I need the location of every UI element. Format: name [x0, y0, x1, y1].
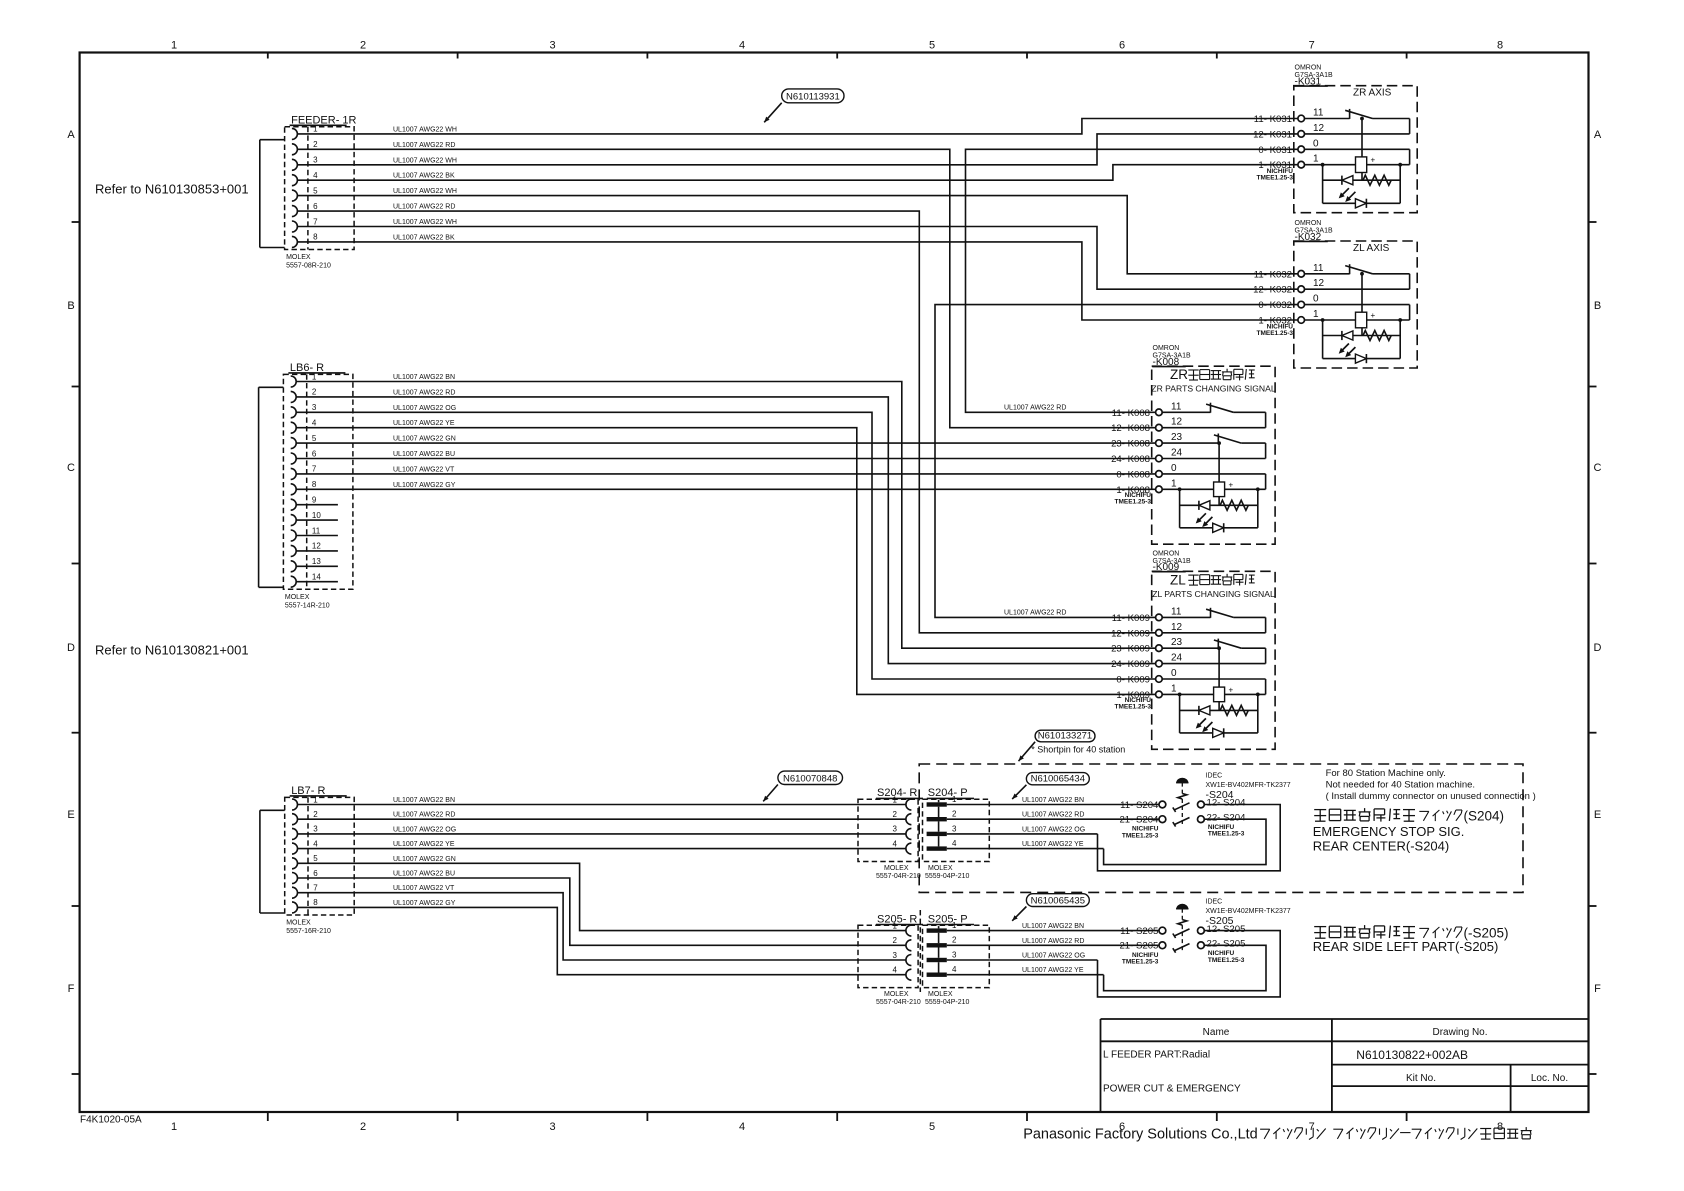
- svg-text:Panasonic Factory Solutions Co: Panasonic Factory Solutions Co.,Ltd: [1023, 1126, 1258, 1142]
- svg-text:UL1007 AWG22 OG: UL1007 AWG22 OG: [393, 826, 456, 833]
- svg-text:11- K032: 11- K032: [1254, 269, 1292, 280]
- svg-text:UL1007 AWG22 GY: UL1007 AWG22 GY: [393, 900, 456, 907]
- svg-text:23- K008: 23- K008: [1111, 439, 1150, 450]
- svg-text:21- S205: 21- S205: [1119, 941, 1158, 952]
- svg-text:0: 0: [1313, 294, 1319, 305]
- svg-text:3: 3: [952, 950, 957, 959]
- svg-text:3: 3: [893, 951, 898, 960]
- svg-text:N610070848: N610070848: [783, 773, 837, 784]
- svg-text:ZL AXIS: ZL AXIS: [1353, 243, 1390, 254]
- svg-text:7: 7: [1309, 40, 1315, 52]
- svg-text:+: +: [1229, 480, 1234, 489]
- svg-text:ZR AXIS: ZR AXIS: [1353, 88, 1392, 99]
- svg-text:6: 6: [313, 869, 318, 878]
- svg-text:UL1007 AWG22 RD: UL1007 AWG22 RD: [1004, 405, 1066, 412]
- svg-text:TMEE1.25-3: TMEE1.25-3: [1208, 831, 1245, 838]
- svg-text:7: 7: [313, 217, 318, 226]
- svg-text:8: 8: [313, 233, 318, 242]
- svg-text:UL1007 AWG22 BN: UL1007 AWG22 BN: [393, 374, 455, 381]
- svg-text:ZL PARTS CHANGING SIGNAL: ZL PARTS CHANGING SIGNAL: [1152, 589, 1275, 599]
- svg-text:21- S204: 21- S204: [1119, 815, 1159, 826]
- svg-text:8: 8: [1497, 1121, 1503, 1133]
- svg-text:13: 13: [312, 557, 321, 566]
- svg-text:4: 4: [313, 839, 318, 848]
- svg-text:3: 3: [952, 824, 957, 833]
- svg-text:2: 2: [893, 936, 898, 945]
- svg-text:2: 2: [360, 40, 366, 52]
- svg-text:12: 12: [1171, 417, 1183, 428]
- svg-text:ZR PARTS CHANGING SIGNAL: ZR PARTS CHANGING SIGNAL: [1151, 384, 1276, 394]
- svg-text:S205- P: S205- P: [928, 913, 968, 925]
- svg-text:UL1007 AWG22 BK: UL1007 AWG22 BK: [393, 234, 455, 241]
- svg-text:OMRON: OMRON: [1153, 345, 1180, 352]
- svg-text:7: 7: [313, 884, 318, 893]
- svg-text:Refer to N610130821+001: Refer to N610130821+001: [95, 643, 249, 658]
- svg-text:UL1007 AWG22 YE: UL1007 AWG22 YE: [393, 420, 455, 427]
- svg-text:2: 2: [313, 140, 318, 149]
- svg-text:OMRON: OMRON: [1153, 550, 1180, 557]
- svg-text:REAR SIDE LEFT PART(-S205): REAR SIDE LEFT PART(-S205): [1313, 939, 1499, 954]
- svg-text:5: 5: [313, 186, 318, 195]
- svg-text:5559-04P-210: 5559-04P-210: [925, 999, 969, 1006]
- svg-text:5557-04R-210: 5557-04R-210: [876, 999, 921, 1006]
- svg-text:UL1007 AWG22 OG: UL1007 AWG22 OG: [1022, 953, 1085, 960]
- svg-text:A: A: [67, 129, 75, 141]
- svg-text:22- S204: 22- S204: [1207, 812, 1247, 823]
- svg-text:4: 4: [952, 965, 957, 974]
- svg-text:24: 24: [1171, 653, 1183, 664]
- svg-text:5: 5: [929, 40, 935, 52]
- svg-text:MOLEX: MOLEX: [286, 254, 311, 261]
- svg-text:Drawing No.: Drawing No.: [1432, 1027, 1487, 1038]
- svg-text:0- K032: 0- K032: [1258, 300, 1292, 311]
- svg-text:1: 1: [313, 795, 318, 804]
- svg-text:XW1E-BV402MFR-TK2377: XW1E-BV402MFR-TK2377: [1206, 908, 1291, 915]
- svg-text:UL1007 AWG22 RD: UL1007 AWG22 RD: [1004, 610, 1066, 617]
- svg-text:F4K1020-05A: F4K1020-05A: [80, 1115, 142, 1126]
- svg-text:6: 6: [312, 449, 317, 458]
- svg-text:N610065434: N610065434: [1031, 774, 1085, 785]
- svg-text:UL1007 AWG22 VT: UL1007 AWG22 VT: [393, 466, 455, 473]
- svg-text:8: 8: [1497, 40, 1503, 52]
- svg-text:UL1007 AWG22 RD: UL1007 AWG22 RD: [1022, 812, 1084, 819]
- svg-text:11: 11: [1171, 606, 1182, 617]
- svg-text:0- K031: 0- K031: [1258, 145, 1292, 156]
- svg-text:TMEE1.25-3: TMEE1.25-3: [1208, 957, 1245, 964]
- svg-text:TMEE1.25-3: TMEE1.25-3: [1122, 832, 1159, 839]
- svg-text:B: B: [1594, 300, 1601, 312]
- svg-text:UL1007 AWG22 WH: UL1007 AWG22 WH: [393, 157, 457, 164]
- svg-text:UL1007 AWG22 OG: UL1007 AWG22 OG: [393, 405, 456, 412]
- svg-text:3: 3: [549, 1121, 555, 1133]
- svg-text:UL1007 AWG22 BU: UL1007 AWG22 BU: [393, 451, 455, 458]
- svg-text:TMEE1.25-3: TMEE1.25-3: [1122, 959, 1159, 966]
- svg-text:0- K009: 0- K009: [1116, 675, 1150, 686]
- svg-text:24- K008: 24- K008: [1111, 454, 1150, 465]
- svg-text:12: 12: [312, 542, 321, 551]
- svg-text:2: 2: [893, 810, 898, 819]
- svg-text:11- K008: 11- K008: [1112, 408, 1150, 419]
- svg-text:11: 11: [312, 526, 321, 535]
- svg-text:ZL: ZL: [1170, 572, 1186, 587]
- svg-text:12: 12: [1313, 123, 1325, 134]
- svg-text:Refer to N610130853+001: Refer to N610130853+001: [95, 182, 249, 197]
- svg-text:2: 2: [952, 810, 957, 819]
- svg-text:UL1007 AWG22 BK: UL1007 AWG22 BK: [393, 173, 455, 180]
- svg-text:UL1007 AWG22 WH: UL1007 AWG22 WH: [393, 188, 457, 195]
- svg-text:12: 12: [1171, 622, 1183, 633]
- svg-text:+: +: [1371, 311, 1376, 320]
- svg-text:1: 1: [952, 795, 957, 804]
- svg-text:XW1E-BV402MFR-TK2377: XW1E-BV402MFR-TK2377: [1206, 782, 1291, 789]
- svg-text:S204- P: S204- P: [928, 787, 968, 799]
- svg-text:0: 0: [1313, 138, 1319, 149]
- svg-text:TMEE1.25-3: TMEE1.25-3: [1115, 499, 1152, 506]
- svg-text:N610065435: N610065435: [1031, 895, 1085, 906]
- svg-text:4: 4: [893, 839, 898, 848]
- svg-text:24: 24: [1171, 448, 1183, 459]
- svg-text:5557-08R-210: 5557-08R-210: [286, 263, 331, 270]
- svg-text:MOLEX: MOLEX: [884, 991, 909, 998]
- svg-text:11: 11: [1313, 108, 1324, 119]
- svg-text:1: 1: [1171, 478, 1177, 489]
- svg-text:(S204): (S204): [1464, 808, 1505, 823]
- svg-text:3: 3: [313, 156, 318, 165]
- svg-text:12- K032: 12- K032: [1253, 285, 1292, 296]
- svg-text:3: 3: [549, 40, 555, 52]
- svg-text:Not needed for 40 Station mach: Not needed for 40 Station machine.: [1326, 780, 1475, 791]
- svg-text:6: 6: [313, 202, 318, 211]
- svg-text:E: E: [1594, 809, 1601, 821]
- svg-text:MOLEX: MOLEX: [286, 920, 311, 927]
- svg-text:5557-14R-210: 5557-14R-210: [285, 602, 330, 609]
- svg-text:12- K009: 12- K009: [1111, 628, 1150, 639]
- svg-text:23- K009: 23- K009: [1111, 644, 1150, 655]
- svg-text:11: 11: [1171, 401, 1182, 412]
- svg-text:1: 1: [952, 921, 957, 930]
- svg-text:11- K031: 11- K031: [1254, 114, 1292, 125]
- svg-text:22- S205: 22- S205: [1207, 939, 1246, 950]
- svg-text:UL1007 AWG22 RD: UL1007 AWG22 RD: [393, 204, 455, 211]
- svg-text:E: E: [67, 809, 74, 821]
- svg-text:-S205: -S205: [1206, 915, 1234, 927]
- svg-text:S205- R: S205- R: [877, 913, 917, 925]
- svg-text:For 80 Station Machine only.: For 80 Station Machine only.: [1326, 768, 1446, 779]
- svg-text:0- K008: 0- K008: [1116, 469, 1150, 480]
- svg-text:F: F: [68, 983, 75, 995]
- svg-text:* Shortpin for 40 station: * Shortpin for 40 station: [1031, 745, 1125, 755]
- svg-text:OMRON: OMRON: [1295, 65, 1322, 72]
- svg-text:12: 12: [1313, 278, 1325, 289]
- svg-text:UL1007 AWG22 WH: UL1007 AWG22 WH: [393, 219, 457, 226]
- svg-text:12- K008: 12- K008: [1111, 423, 1150, 434]
- svg-text:5: 5: [929, 1121, 935, 1133]
- svg-text:0: 0: [1171, 668, 1177, 679]
- svg-text:TMEE1.25-3: TMEE1.25-3: [1257, 175, 1294, 182]
- svg-text:TMEE1.25-3: TMEE1.25-3: [1257, 330, 1294, 337]
- svg-text:S204- R: S204- R: [877, 787, 917, 799]
- svg-text:UL1007 AWG22 RD: UL1007 AWG22 RD: [393, 812, 455, 819]
- svg-text:UL1007 AWG22 YE: UL1007 AWG22 YE: [1022, 967, 1084, 974]
- svg-text:B: B: [67, 300, 74, 312]
- svg-text:UL1007 AWG22 RD: UL1007 AWG22 RD: [1022, 938, 1084, 945]
- svg-text:MOLEX: MOLEX: [285, 594, 310, 601]
- svg-text:6: 6: [1119, 40, 1125, 52]
- svg-text:N610113931: N610113931: [786, 92, 840, 103]
- svg-text:23: 23: [1171, 637, 1183, 648]
- svg-text:1: 1: [313, 125, 318, 134]
- svg-text:3: 3: [312, 403, 317, 412]
- svg-text:9: 9: [312, 496, 317, 505]
- svg-text:UL1007 AWG22 OG: UL1007 AWG22 OG: [1022, 826, 1085, 833]
- svg-text:UL1007 AWG22 BN: UL1007 AWG22 BN: [1022, 797, 1084, 804]
- svg-text:3: 3: [313, 825, 318, 834]
- svg-text:D: D: [67, 642, 75, 654]
- svg-text:23: 23: [1171, 432, 1183, 443]
- svg-text:11: 11: [1313, 263, 1324, 274]
- svg-text:1: 1: [171, 40, 177, 52]
- svg-text:N610133271: N610133271: [1038, 731, 1092, 742]
- svg-text:TMEE1.25-3: TMEE1.25-3: [1115, 704, 1152, 711]
- svg-text:5557-16R-210: 5557-16R-210: [286, 928, 331, 935]
- svg-text:5557-04R-210: 5557-04R-210: [876, 873, 921, 880]
- svg-text:24- K009: 24- K009: [1111, 659, 1150, 670]
- svg-text:12- K031: 12- K031: [1253, 129, 1292, 140]
- svg-text:4: 4: [952, 839, 957, 848]
- svg-text:5559-04P-210: 5559-04P-210: [925, 873, 969, 880]
- svg-text:UL1007 AWG22 YE: UL1007 AWG22 YE: [393, 841, 455, 848]
- svg-text:Name: Name: [1203, 1027, 1230, 1038]
- svg-text:POWER CUT & EMERGENCY: POWER CUT & EMERGENCY: [1103, 1084, 1241, 1095]
- svg-text:1: 1: [312, 372, 317, 381]
- svg-text:UL1007 AWG22 GY: UL1007 AWG22 GY: [393, 482, 456, 489]
- svg-text:REAR CENTER(-S204): REAR CENTER(-S204): [1313, 839, 1450, 854]
- svg-text:4: 4: [312, 419, 317, 428]
- svg-text:IDEC: IDEC: [1206, 898, 1223, 905]
- svg-text:MOLEX: MOLEX: [928, 865, 953, 872]
- svg-text:2: 2: [313, 810, 318, 819]
- svg-text:7: 7: [312, 465, 317, 474]
- svg-text:-S204: -S204: [1206, 789, 1234, 801]
- svg-text:UL1007 AWG22 RD: UL1007 AWG22 RD: [393, 142, 455, 149]
- svg-text:2: 2: [312, 388, 317, 397]
- svg-text:IDEC: IDEC: [1206, 772, 1223, 779]
- svg-text:1: 1: [1313, 309, 1319, 320]
- svg-text:D: D: [1594, 642, 1602, 654]
- svg-text:8: 8: [313, 898, 318, 907]
- svg-text:UL1007 AWG22 BU: UL1007 AWG22 BU: [393, 871, 455, 878]
- svg-text:+: +: [1371, 156, 1376, 165]
- svg-text:Kit No.: Kit No.: [1406, 1073, 1436, 1084]
- svg-text:(-S205): (-S205): [1464, 925, 1509, 940]
- svg-text:14: 14: [312, 573, 321, 582]
- svg-text:10: 10: [312, 511, 321, 520]
- svg-text:2: 2: [952, 936, 957, 945]
- svg-text:4: 4: [893, 966, 898, 975]
- svg-text:1: 1: [893, 795, 898, 804]
- svg-text:UL1007 AWG22 WH: UL1007 AWG22 WH: [393, 126, 457, 133]
- svg-text:1: 1: [893, 921, 898, 930]
- svg-text:1: 1: [1313, 154, 1319, 165]
- svg-text:8: 8: [312, 480, 317, 489]
- svg-text:2: 2: [360, 1121, 366, 1133]
- svg-text:1: 1: [171, 1121, 177, 1133]
- svg-text:7: 7: [1309, 1121, 1315, 1133]
- svg-text:1: 1: [1171, 683, 1177, 694]
- svg-text:F: F: [1594, 983, 1601, 995]
- svg-text:C: C: [1594, 462, 1602, 474]
- svg-text:UL1007 AWG22 BN: UL1007 AWG22 BN: [393, 797, 455, 804]
- svg-text:4: 4: [739, 1121, 745, 1133]
- svg-text:( Install dummy connector on u: ( Install dummy connector on unused conn…: [1326, 791, 1536, 802]
- svg-text:MOLEX: MOLEX: [884, 865, 909, 872]
- svg-text:UL1007 AWG22 YE: UL1007 AWG22 YE: [1022, 841, 1084, 848]
- svg-text:4: 4: [313, 171, 318, 180]
- svg-text:UL1007 AWG22 BN: UL1007 AWG22 BN: [1022, 923, 1084, 930]
- svg-text:0: 0: [1171, 463, 1177, 474]
- svg-text:5: 5: [313, 854, 318, 863]
- svg-text:A: A: [1594, 129, 1602, 141]
- svg-text:3: 3: [893, 825, 898, 834]
- svg-text:11- S205: 11- S205: [1120, 926, 1158, 937]
- svg-text:11- K009: 11- K009: [1112, 613, 1150, 624]
- svg-text:N610130822+002AB: N610130822+002AB: [1356, 1048, 1468, 1062]
- svg-text:Loc. No.: Loc. No.: [1531, 1073, 1568, 1084]
- svg-text:EMERGENCY STOP SIG.: EMERGENCY STOP SIG.: [1313, 824, 1465, 839]
- svg-text:UL1007 AWG22 RD: UL1007 AWG22 RD: [393, 389, 455, 396]
- svg-text:UL1007 AWG22 VT: UL1007 AWG22 VT: [393, 885, 455, 892]
- svg-text:11- S204: 11- S204: [1120, 800, 1159, 811]
- svg-text:5: 5: [312, 434, 317, 443]
- svg-text:OMRON: OMRON: [1295, 220, 1322, 227]
- svg-text:MOLEX: MOLEX: [928, 991, 953, 998]
- svg-text:ZR: ZR: [1170, 367, 1188, 382]
- svg-text:UL1007 AWG22 GN: UL1007 AWG22 GN: [393, 856, 456, 863]
- svg-text:C: C: [67, 462, 75, 474]
- svg-text:L FEEDER PART:Radial: L FEEDER PART:Radial: [1103, 1050, 1210, 1061]
- svg-text:+: +: [1229, 685, 1234, 694]
- svg-text:UL1007 AWG22 GN: UL1007 AWG22 GN: [393, 436, 456, 443]
- svg-text:4: 4: [739, 40, 745, 52]
